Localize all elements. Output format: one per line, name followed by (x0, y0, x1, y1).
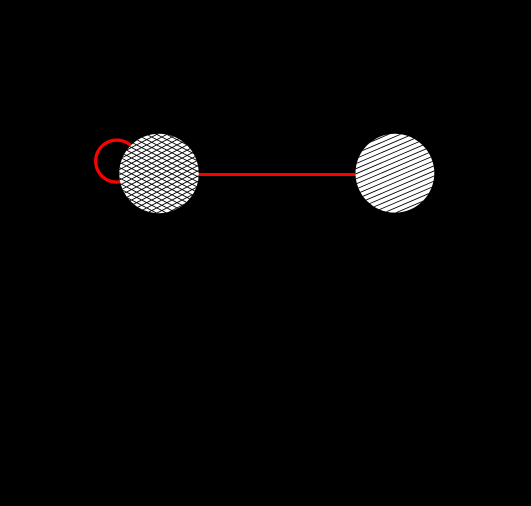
self-loop edge at node A (96, 140, 138, 182)
edge A-B (159, 173, 395, 176)
node A (crosshatched) (118, 86, 200, 262)
node B (diagonal hatched) (354, 94, 436, 252)
